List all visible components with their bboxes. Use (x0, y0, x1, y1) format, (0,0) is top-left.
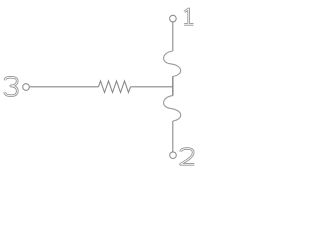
wire pin3 to resistor (30, 86, 99, 88)
resistor zigzag (99, 81, 131, 93)
pin label 2 (181, 149, 195, 165)
terminal pin 3 (23, 84, 30, 91)
wire resistor to track (131, 86, 173, 88)
terminal pin 1 (170, 15, 177, 22)
wire to pin2 (172, 121, 174, 152)
pin label 3 (5, 77, 17, 95)
terminal pin 2 (170, 152, 177, 159)
wire pin1 down (172, 22, 174, 51)
track straight at wiper (172, 76, 174, 96)
track squiggle upper S (164, 51, 181, 77)
track squiggle lower S (164, 96, 181, 122)
pin label 1 (184, 9, 193, 24)
